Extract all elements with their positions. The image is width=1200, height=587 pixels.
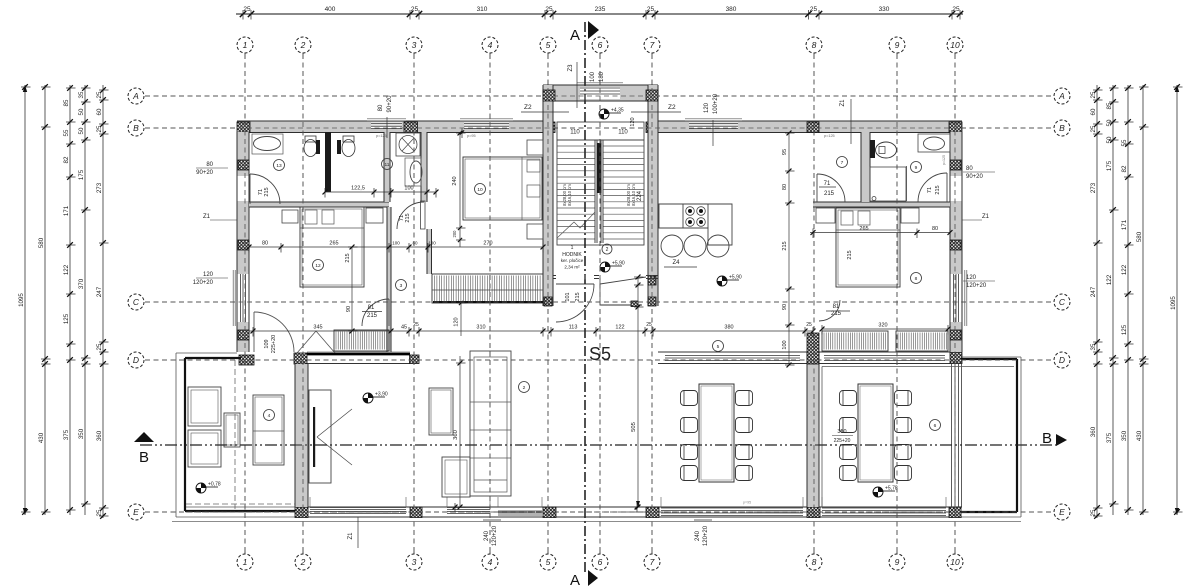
svg-text:71: 71 [824,181,831,187]
svg-text:120: 120 [704,102,710,113]
svg-text:215: 215 [345,253,351,262]
svg-text:+3,90: +3,90 [375,392,388,398]
svg-text:225+20: 225+20 [834,438,851,444]
svg-text:7: 7 [650,557,655,567]
svg-text:E: E [1059,507,1065,517]
svg-text:9: 9 [895,40,900,50]
svg-text:60: 60 [1090,108,1097,115]
svg-text:A: A [132,91,139,101]
svg-text:100+20: 100+20 [713,93,719,114]
svg-text:90+20: 90+20 [387,95,393,113]
svg-text:85: 85 [63,99,70,106]
svg-text:273: 273 [1090,182,1097,193]
svg-text:80: 80 [412,241,418,246]
svg-text:247: 247 [96,286,103,297]
svg-text:171: 171 [63,205,70,216]
svg-text:p=95: p=95 [467,134,476,138]
svg-text:1: 1 [243,557,248,567]
svg-text:+0,78: +0,78 [208,482,221,488]
svg-text:225+20: 225+20 [271,335,277,354]
svg-text:50: 50 [1106,136,1113,143]
svg-text:120+20: 120+20 [492,525,498,546]
svg-text:82: 82 [1121,165,1128,172]
svg-text:345: 345 [313,325,322,331]
svg-text:580: 580 [38,237,45,248]
svg-text:1095: 1095 [1170,296,1177,310]
svg-text:215: 215 [935,185,941,194]
svg-text:25: 25 [952,6,960,13]
svg-text:10: 10 [950,557,960,567]
svg-text:122,5: 122,5 [351,186,365,192]
svg-text:55: 55 [1121,139,1128,146]
svg-text:6: 6 [934,423,937,429]
svg-text:4: 4 [488,40,493,50]
svg-text:1: 1 [243,40,248,50]
svg-text:80: 80 [206,162,213,168]
svg-text:90: 90 [782,304,788,310]
svg-text:1095: 1095 [18,293,25,307]
svg-text:7: 7 [650,40,655,50]
svg-text:35: 35 [1090,343,1097,350]
svg-text:B: B [133,123,139,133]
svg-text:8: 8 [812,557,817,567]
svg-text:+5,78: +5,78 [885,486,898,492]
svg-text:360: 360 [453,430,459,440]
svg-text:310: 310 [477,6,488,13]
svg-text:375: 375 [1106,432,1113,443]
svg-text:Z1: Z1 [982,214,990,220]
svg-text:8x16,10 cm: 8x16,10 cm [567,184,572,206]
svg-text:8: 8 [812,40,817,50]
svg-text:175: 175 [1106,160,1113,171]
svg-text:320: 320 [878,323,887,329]
svg-text:85: 85 [1106,102,1113,109]
svg-text:580: 580 [1136,231,1143,242]
svg-text:110: 110 [570,130,580,136]
svg-text:120+20: 120+20 [966,283,987,289]
svg-text:9: 9 [895,557,900,567]
svg-text:35: 35 [78,91,85,98]
svg-text:110: 110 [618,130,628,136]
svg-text:240: 240 [452,176,458,185]
svg-text:3: 3 [400,283,403,289]
svg-text:4: 4 [268,413,271,419]
svg-text:90: 90 [346,306,352,312]
svg-text:5: 5 [546,40,551,50]
svg-text:25: 25 [243,6,251,13]
svg-text:13: 13 [276,163,282,169]
svg-text:45: 45 [401,325,407,331]
svg-text:2,34 m²: 2,34 m² [564,265,580,270]
svg-text:50: 50 [78,108,85,115]
svg-text:90+20: 90+20 [196,170,214,176]
svg-text:25: 25 [96,125,103,132]
svg-text:120: 120 [203,272,214,278]
svg-text:p=95: p=95 [743,501,751,505]
svg-text:1: 1 [571,245,574,251]
svg-text:3: 3 [412,40,417,50]
svg-text:+5,90: +5,90 [612,261,625,267]
svg-text:25: 25 [647,6,655,13]
svg-text:122: 122 [1121,264,1128,275]
svg-text:25: 25 [96,343,103,350]
svg-text:D: D [133,355,139,365]
svg-text:273: 273 [96,182,103,193]
svg-text:120: 120 [454,317,460,326]
svg-text:400: 400 [325,6,336,13]
svg-text:S5: S5 [589,344,611,364]
svg-text:80: 80 [262,241,268,247]
svg-text:50: 50 [78,127,85,134]
svg-text:100: 100 [590,71,596,82]
svg-text:215: 215 [264,187,270,196]
svg-text:101: 101 [565,292,571,301]
svg-text:100: 100 [392,241,400,246]
svg-text:380: 380 [726,6,737,13]
svg-text:215: 215 [824,191,835,197]
svg-text:375: 375 [63,429,70,440]
svg-text:80: 80 [966,166,973,172]
svg-text:265: 265 [329,241,338,247]
svg-text:350: 350 [78,428,85,439]
svg-text:4: 4 [488,557,493,567]
svg-text:430: 430 [1136,430,1143,441]
svg-text:505: 505 [631,422,637,432]
svg-text:310: 310 [476,325,485,331]
svg-text:171: 171 [1121,219,1128,230]
svg-text:247: 247 [1090,286,1097,297]
svg-text:25: 25 [646,322,652,328]
svg-text:A: A [570,572,580,587]
svg-text:25: 25 [1090,91,1097,98]
svg-text:370: 370 [78,278,85,289]
svg-text:6: 6 [598,40,603,50]
svg-text:81: 81 [368,305,375,311]
svg-text:10: 10 [477,187,483,193]
svg-text:120+20: 120+20 [703,525,709,546]
svg-text:215: 215 [405,213,411,222]
svg-text:Z4: Z4 [672,260,680,266]
svg-text:2: 2 [523,385,526,391]
svg-text:8x16,10 cm: 8x16,10 cm [631,184,636,206]
svg-text:A: A [1058,91,1065,101]
svg-text:265: 265 [859,226,868,232]
svg-text:E: E [133,507,139,517]
svg-text:5: 5 [546,557,551,567]
svg-text:2: 2 [606,247,609,253]
svg-text:224: 224 [637,190,643,201]
svg-text:Z1: Z1 [348,532,354,540]
svg-text:11: 11 [385,162,390,168]
svg-text:p=125: p=125 [824,134,835,138]
svg-text:25: 25 [96,91,103,98]
svg-text:Z1: Z1 [203,214,211,220]
svg-text:215: 215 [831,311,842,317]
svg-text:p=125: p=125 [376,134,387,138]
svg-text:25: 25 [1090,509,1097,516]
svg-text:100: 100 [782,340,788,349]
svg-text:Z2: Z2 [524,104,532,111]
svg-text:120: 120 [630,117,636,126]
svg-text:215: 215 [367,313,378,319]
svg-text:25: 25 [411,6,419,13]
svg-text:175: 175 [78,169,85,180]
svg-text:122: 122 [1106,274,1113,285]
svg-text:80: 80 [932,226,938,232]
svg-text:120: 120 [966,275,977,281]
svg-text:215: 215 [575,292,581,301]
svg-text:ker. pločice: ker. pločice [561,258,584,263]
svg-text:5: 5 [717,344,720,350]
svg-text:12: 12 [315,263,321,269]
svg-text:p=125: p=125 [942,155,946,165]
svg-text:2: 2 [300,557,306,567]
svg-text:25: 25 [806,322,812,328]
svg-text:10: 10 [950,40,960,50]
svg-text:270: 270 [483,241,492,247]
svg-text:A: A [570,27,580,44]
svg-text:55: 55 [63,129,70,136]
svg-text:+4,35: +4,35 [611,108,624,114]
svg-text:360: 360 [96,430,103,441]
svg-text:B: B [139,449,149,466]
svg-text:D: D [1059,355,1065,365]
svg-text:Z3: Z3 [568,64,574,72]
svg-text:95: 95 [782,149,788,155]
svg-text:25: 25 [96,509,103,516]
svg-text:240: 240 [695,530,701,541]
svg-text:3: 3 [412,557,417,567]
svg-text:109: 109 [264,339,270,348]
svg-text:125: 125 [1121,324,1128,335]
svg-text:90+20: 90+20 [966,174,984,180]
svg-text:25: 25 [1090,125,1097,132]
svg-text:215: 215 [782,241,788,250]
svg-text:C: C [1059,297,1066,307]
svg-text:+5,90: +5,90 [729,275,742,281]
svg-text:200: 200 [452,230,457,238]
svg-text:60: 60 [96,108,103,115]
svg-text:350: 350 [1121,430,1128,441]
svg-text:6: 6 [598,557,603,567]
svg-text:113: 113 [569,325,578,331]
svg-text:80: 80 [782,184,788,190]
svg-text:82: 82 [63,156,70,163]
svg-text:2: 2 [300,40,306,50]
svg-text:80: 80 [378,104,384,111]
svg-text:100: 100 [404,186,413,192]
svg-text:Z2: Z2 [668,104,676,111]
svg-text:100: 100 [428,241,436,246]
svg-text:25: 25 [545,6,553,13]
svg-text:360: 360 [1090,426,1097,437]
svg-text:71: 71 [927,187,933,193]
svg-text:380: 380 [724,325,733,331]
svg-text:215: 215 [847,250,853,259]
svg-text:350: 350 [837,429,846,435]
svg-text:122: 122 [63,264,70,275]
svg-text:240: 240 [484,530,490,541]
svg-text:8: 8 [915,276,918,282]
svg-text:120+20: 120+20 [193,280,214,286]
svg-text:330: 330 [879,6,890,13]
svg-text:125: 125 [63,313,70,324]
svg-text:81: 81 [833,304,840,310]
svg-text:B: B [1059,123,1065,133]
svg-text:50: 50 [1106,119,1113,126]
svg-text:122: 122 [615,325,624,331]
svg-text:9: 9 [915,165,918,171]
svg-text:430: 430 [38,432,45,443]
svg-text:Z1: Z1 [840,99,846,107]
svg-text:C: C [133,297,140,307]
svg-text:7: 7 [841,160,844,166]
svg-text:25: 25 [810,6,818,13]
svg-text:235: 235 [595,6,606,13]
